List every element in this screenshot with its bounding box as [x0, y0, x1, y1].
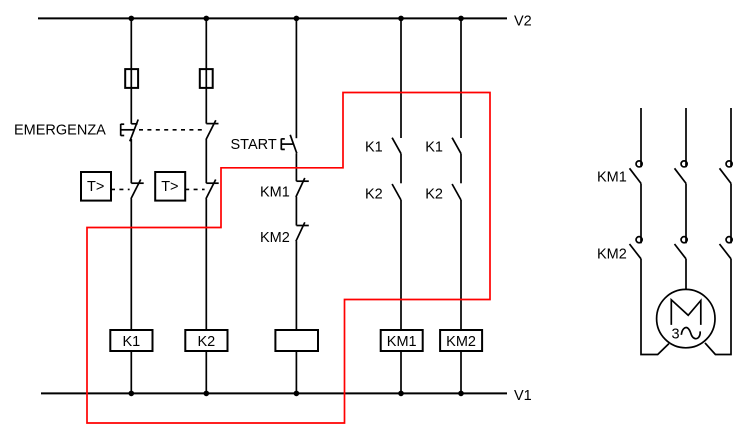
- wire L1 between KM1 and KM2: [640, 183, 642, 243]
- highlight outline (red): [87, 93, 490, 424]
- svg-text:T>: T>: [161, 179, 178, 195]
- coil KM2: [440, 330, 482, 351]
- wire phase L2 top: [685, 108, 687, 167]
- svg-text:3: 3: [672, 326, 680, 342]
- fuse F1: [125, 69, 138, 88]
- motor phase squiggle: [681, 328, 700, 339]
- svg-text:K1: K1: [123, 334, 141, 350]
- power contact KM1 pole2: [675, 161, 688, 184]
- svg-text:KM2: KM2: [446, 334, 476, 350]
- svg-text:K2: K2: [198, 334, 216, 350]
- wire branch2 T-contact to coil K2: [205, 199, 207, 330]
- pushbutton actuator START: [281, 139, 293, 150]
- svg-text:T>: T>: [87, 179, 104, 195]
- power contact KM2 pole1: [630, 237, 643, 259]
- node branch4-V1: [398, 391, 404, 397]
- node branch5-V2: [458, 16, 464, 22]
- wire L3 between KM1 and KM2: [730, 183, 732, 243]
- node branch4-V2: [398, 16, 404, 22]
- mechanical link EMERGENZA to branch2: [139, 129, 205, 131]
- wire branch2 emergency to T-contact: [205, 139, 207, 183]
- thermal relay box T> right: [155, 172, 185, 201]
- power contact KM2 pole2: [675, 237, 688, 259]
- wire branch4 coil to V1: [400, 351, 402, 393]
- wire L2 to motor: [685, 259, 687, 290]
- wire branch1 top: [130, 18, 132, 124]
- svg-text:KM1: KM1: [387, 334, 417, 350]
- contact KM2 branch3 (NC): [296, 222, 309, 241]
- svg-text:KM2: KM2: [260, 230, 290, 246]
- wire branch2 coil to V1: [205, 351, 207, 393]
- power contact KM2 pole3: [720, 237, 733, 259]
- wire L2 between KM1 and KM2: [685, 183, 687, 243]
- svg-text:K1: K1: [425, 140, 443, 156]
- wire phase L3 top: [730, 108, 732, 167]
- node branch3-V1: [294, 391, 300, 397]
- svg-text:K2: K2: [365, 187, 383, 203]
- wire branch1 T-contact to coil K1: [130, 199, 132, 330]
- mechanical link T> right: [185, 188, 204, 190]
- motor letter M: [671, 300, 701, 325]
- bus V2: [38, 17, 507, 19]
- wire branch2 top: [205, 18, 207, 123]
- contact EMERGENZA branch1 (NC pushbutton): [130, 120, 138, 142]
- node branch5-V1: [458, 391, 464, 397]
- thermal relay box T> left: [81, 172, 111, 201]
- wire branch5 top: [460, 18, 462, 138]
- wire phase L1 top: [640, 108, 642, 167]
- contact K1 branch4 (NO): [392, 138, 401, 154]
- coil K2: [185, 330, 227, 351]
- motor M1 circle: [657, 289, 715, 347]
- wire L1 to motor: [641, 259, 669, 355]
- pushbutton actuator EMERGENZA: [121, 124, 135, 136]
- contact T> branch2 (NC): [206, 180, 219, 199]
- coil K1: [110, 330, 152, 351]
- svg-text:V2: V2: [514, 14, 532, 30]
- wire branch4 top: [400, 18, 402, 138]
- contact EMERGENZA branch2 (NC): [206, 120, 219, 139]
- contact T> branch1 (NC): [131, 180, 144, 199]
- svg-text:EMERGENZA: EMERGENZA: [14, 123, 106, 139]
- wire branch3 START to KM1 contact: [295, 153, 297, 181]
- power contact KM1 pole1: [630, 161, 643, 184]
- node branch3-V2: [294, 16, 300, 22]
- wire branch5 coil to V1: [460, 351, 462, 393]
- wire L3 to motor: [705, 259, 731, 355]
- svg-text:V1: V1: [514, 388, 532, 404]
- wire branch1 emergency to T-contact: [130, 139, 132, 183]
- wire branch5 K1 to K2 contact: [460, 154, 462, 184]
- contact START branch3 (NO pushbutton): [290, 135, 297, 154]
- wire branch4 K2 to coil KM1: [400, 200, 402, 330]
- contact K1 branch5 (NO): [452, 138, 461, 154]
- wire branch5 K2 to coil KM2: [460, 200, 462, 330]
- svg-text:KM1: KM1: [260, 185, 290, 201]
- node branch2-V1: [204, 391, 210, 397]
- svg-text:K2: K2: [425, 187, 443, 203]
- svg-text:KM2: KM2: [597, 246, 627, 262]
- svg-text:KM1: KM1: [597, 170, 627, 186]
- wire branch3 KM2 to coil: [295, 241, 297, 330]
- svg-text:START: START: [231, 137, 277, 153]
- contact K2 branch4 (NO): [392, 184, 401, 200]
- contact KM1 branch3 (NC): [296, 178, 309, 197]
- coil unlabeled branch3: [275, 330, 318, 351]
- mechanical link T> left: [111, 188, 130, 190]
- node branch2-V2: [204, 16, 210, 22]
- node branch1-V2: [129, 16, 135, 22]
- wire branch3 top: [295, 18, 297, 138]
- svg-text:K1: K1: [365, 140, 383, 156]
- node branch1-V1: [129, 391, 135, 397]
- contact K2 branch5 (NO): [452, 184, 461, 200]
- coil KM1: [381, 330, 423, 351]
- bus V1: [41, 392, 507, 394]
- wire branch1 coil to V1: [130, 351, 132, 393]
- wire branch3 KM1 to KM2 contact: [295, 197, 297, 226]
- wire branch4 K1 to K2 contact: [400, 154, 402, 184]
- fuse F2: [200, 69, 213, 88]
- power contact KM1 pole3: [720, 161, 733, 184]
- wire branch3 coil to V1: [295, 351, 297, 393]
